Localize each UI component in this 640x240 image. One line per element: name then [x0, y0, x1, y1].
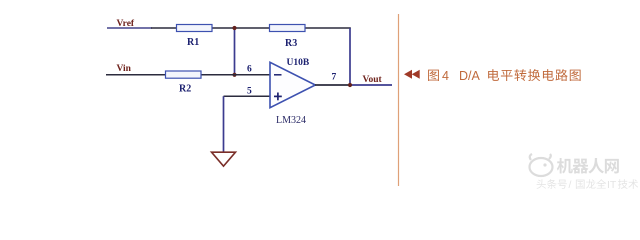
pin 5 number label — [247, 87, 252, 97]
junction node A bottom — [232, 73, 236, 77]
node Vout — [363, 75, 383, 85]
wire to non-inverting input pin 5 — [224, 95, 273, 97]
svg-text:U10B: U10B — [287, 58, 310, 68]
wire vertical from node A down to inverting input — [234, 28, 236, 75]
svg-text:R3: R3 — [285, 38, 297, 49]
resistor R2 — [166, 71, 202, 95]
svg-text:Vin: Vin — [117, 64, 132, 74]
op-amp value label LM324 — [276, 115, 306, 126]
svg-text:7: 7 — [332, 73, 337, 83]
op-amp U10B — [270, 58, 315, 108]
svg-text:Vref: Vref — [117, 19, 135, 29]
junction output node — [348, 83, 352, 87]
svg-text:D/A: D/A — [459, 69, 481, 83]
divider line (decorative) — [398, 14, 400, 186]
svg-text:R1: R1 — [187, 37, 199, 48]
node Vin — [117, 64, 132, 74]
svg-text:6: 6 — [247, 65, 252, 75]
wire vertical down to ground — [223, 96, 225, 152]
junction node A top — [232, 26, 236, 30]
watermark logo and text (branding) — [530, 154, 639, 191]
svg-text:4: 4 — [442, 69, 449, 83]
pin 6 number label — [247, 65, 252, 75]
wire Vref horizontal segment — [107, 27, 351, 29]
resistor R1 — [177, 25, 213, 49]
svg-text:IT: IT — [607, 179, 617, 191]
node Vref — [117, 19, 135, 29]
svg-text:R2: R2 — [179, 84, 191, 95]
wire Vin horizontal segment — [106, 74, 272, 76]
wire feedback vertical from R3 to output — [349, 28, 351, 85]
resistor R3 — [270, 25, 306, 50]
ground — [212, 152, 236, 166]
svg-text:LM324: LM324 — [276, 115, 306, 126]
svg-text:Vout: Vout — [363, 75, 383, 85]
svg-text:/: / — [569, 179, 572, 191]
caption: figure 4 D/A level conversion circuit — [404, 69, 581, 83]
wire output pin 7 segment — [315, 84, 392, 86]
pin 7 number label — [332, 73, 337, 83]
svg-text:5: 5 — [247, 87, 252, 97]
